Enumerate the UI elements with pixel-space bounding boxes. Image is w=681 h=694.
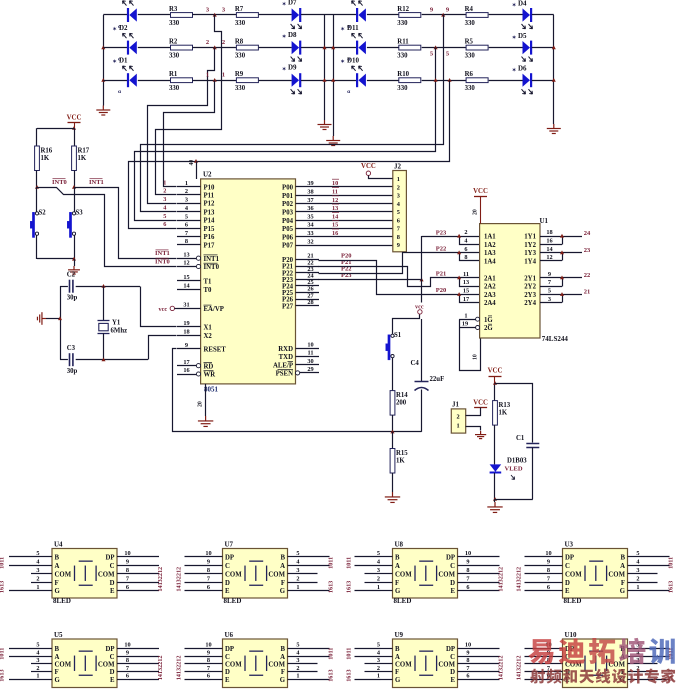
pin 4 A xyxy=(381,565,393,567)
LED D2 xyxy=(127,41,129,55)
svg-text:18: 18 xyxy=(546,229,552,236)
svg-text:C: C xyxy=(450,563,455,570)
junction (cathode bus) xyxy=(331,45,335,49)
svg-text:Y1: Y1 xyxy=(112,320,121,327)
svg-text:COM: COM xyxy=(395,662,412,669)
svg-text:P05: P05 xyxy=(282,226,294,233)
LED D11 xyxy=(356,41,358,55)
wire xyxy=(489,14,523,16)
wire xyxy=(525,565,551,567)
svg-text:F: F xyxy=(395,669,399,676)
svg-text:13: 13 xyxy=(463,279,469,286)
svg-text:B: B xyxy=(55,646,60,653)
pin 5 2Y3 xyxy=(540,294,562,296)
svg-text:R17: R17 xyxy=(78,148,90,155)
svg-text:5: 5 xyxy=(296,642,299,649)
svg-text:VCC: VCC xyxy=(473,400,488,407)
svg-text:6: 6 xyxy=(163,221,166,228)
wire xyxy=(138,47,171,49)
svg-text:1: 1 xyxy=(296,673,299,680)
svg-text:G: G xyxy=(280,588,286,595)
svg-text:R3: R3 xyxy=(169,6,178,13)
pin 10 DP xyxy=(211,556,223,558)
wire xyxy=(525,582,551,584)
svg-text:TXD: TXD xyxy=(279,354,293,361)
pin 1 G xyxy=(628,679,640,681)
svg-text:330: 330 xyxy=(169,20,180,27)
svg-text:14132212: 14132212 xyxy=(157,567,164,592)
wire xyxy=(355,556,381,558)
svg-text:12: 12 xyxy=(332,197,338,204)
svg-text:X2: X2 xyxy=(204,333,213,340)
wire xyxy=(421,390,423,432)
svg-text:1011: 1011 xyxy=(0,557,6,569)
wire xyxy=(185,556,211,558)
svg-text:E: E xyxy=(565,588,570,595)
wire xyxy=(185,582,211,584)
svg-text:330: 330 xyxy=(235,52,246,59)
pin 15 T1 xyxy=(177,280,201,282)
svg-text:D7: D7 xyxy=(288,0,297,7)
resistor R12 xyxy=(399,13,421,18)
wire xyxy=(9,679,40,681)
wire xyxy=(37,258,74,260)
svg-text:3: 3 xyxy=(296,567,299,574)
svg-text:P13: P13 xyxy=(204,209,216,216)
svg-text:U4: U4 xyxy=(54,541,63,549)
svg-text:ALE/P: ALE/P xyxy=(273,362,293,369)
svg-text:1: 1 xyxy=(377,584,380,591)
svg-text:8LED: 8LED xyxy=(53,597,71,605)
svg-text:D11: D11 xyxy=(347,24,359,32)
svg-text:A: A xyxy=(620,563,625,570)
svg-text:✶: ✶ xyxy=(512,68,516,74)
wire xyxy=(74,171,76,188)
svg-text:23: 23 xyxy=(584,247,591,254)
wire xyxy=(640,671,658,673)
svg-text:6: 6 xyxy=(397,217,400,224)
svg-text:14: 14 xyxy=(546,246,553,253)
wire output net 23 xyxy=(562,252,582,254)
svg-text:VCC: VCC xyxy=(473,188,488,195)
wire xyxy=(60,359,68,361)
svg-text:COM: COM xyxy=(98,662,115,669)
svg-text:12: 12 xyxy=(546,254,552,261)
pin 28 P27 xyxy=(296,305,320,307)
svg-text:2A3: 2A3 xyxy=(484,292,496,299)
LED xyxy=(127,8,129,22)
svg-text:R1: R1 xyxy=(169,71,178,78)
pin 10 DP xyxy=(117,648,129,650)
pin 27 P26 xyxy=(296,299,320,301)
wire xyxy=(355,648,381,650)
svg-text:38: 38 xyxy=(307,189,313,196)
wire xyxy=(36,128,38,146)
svg-text:COM: COM xyxy=(608,571,625,578)
pin 1 G xyxy=(40,590,52,592)
pin 3 COM xyxy=(40,573,52,575)
pin 6 E xyxy=(211,679,223,681)
svg-text:B: B xyxy=(55,555,60,562)
pin 5 B xyxy=(40,648,52,650)
wire xyxy=(185,663,211,665)
svg-text:DP: DP xyxy=(105,646,114,653)
svg-text:30: 30 xyxy=(307,358,313,365)
svg-text:33: 33 xyxy=(307,230,313,237)
pin 18 X2 xyxy=(177,335,201,337)
svg-text:RXD: RXD xyxy=(278,346,293,353)
pin 12 INT0 xyxy=(177,266,197,268)
pin 2 F xyxy=(628,671,640,673)
pin 7 D xyxy=(211,671,223,673)
resistor R8 xyxy=(236,45,258,50)
svg-text:1613: 1613 xyxy=(668,581,675,593)
svg-text:3: 3 xyxy=(636,567,639,574)
svg-text:U3: U3 xyxy=(565,541,574,549)
pin 1 G xyxy=(628,590,640,592)
wire xyxy=(129,656,159,658)
svg-text:20: 20 xyxy=(473,209,479,215)
ground (VLED) xyxy=(487,502,502,512)
svg-text:D: D xyxy=(110,580,115,587)
wire xyxy=(193,80,237,82)
svg-text:B: B xyxy=(395,555,400,562)
svg-text:14132212: 14132212 xyxy=(176,567,183,592)
wire xyxy=(31,663,40,665)
wire net5 xyxy=(135,48,436,221)
svg-text:COM: COM xyxy=(55,662,72,669)
svg-text:11: 11 xyxy=(332,189,338,196)
pin 9 C xyxy=(551,656,563,658)
svg-text:330: 330 xyxy=(397,52,408,59)
wire xyxy=(300,679,330,681)
svg-text:8051: 8051 xyxy=(204,386,219,394)
node 3 (row1 left) xyxy=(213,13,217,17)
wire xyxy=(640,590,670,592)
wire xyxy=(392,358,394,391)
wire xyxy=(494,499,496,502)
svg-text:✶: ✶ xyxy=(113,27,117,33)
svg-text:20: 20 xyxy=(198,401,204,407)
svg-text:7: 7 xyxy=(207,575,210,582)
wire xyxy=(129,556,159,558)
svg-text:PSEN: PSEN xyxy=(276,371,293,378)
pin 6 E xyxy=(117,590,129,592)
resistor R11 xyxy=(399,45,421,50)
svg-text:32: 32 xyxy=(307,238,313,245)
pin 2 F xyxy=(40,671,52,673)
svg-text:15: 15 xyxy=(183,274,189,281)
svg-text:1011: 1011 xyxy=(346,557,353,569)
svg-text:B: B xyxy=(395,646,400,653)
svg-text:2: 2 xyxy=(36,665,39,672)
wire P01 to J2 xyxy=(319,195,393,197)
svg-text:14132212: 14132212 xyxy=(498,656,505,681)
svg-text:3: 3 xyxy=(163,196,166,203)
wire xyxy=(365,573,381,575)
svg-text:1: 1 xyxy=(296,584,299,591)
pin 8 COM xyxy=(117,573,129,575)
svg-text:E: E xyxy=(450,677,455,684)
wire (S1 vcc feed) xyxy=(393,315,420,335)
pin 37 P02 xyxy=(296,203,320,205)
wire xyxy=(422,47,466,49)
wire xyxy=(470,671,500,673)
wire xyxy=(36,171,38,188)
pin 5 B xyxy=(288,556,300,558)
svg-text:1011: 1011 xyxy=(0,648,6,660)
wire xyxy=(185,590,211,592)
svg-text:10: 10 xyxy=(465,642,471,649)
svg-text:R9: R9 xyxy=(235,71,244,78)
svg-text:11: 11 xyxy=(308,350,314,357)
wire xyxy=(640,656,670,658)
svg-text:INT0: INT0 xyxy=(155,259,170,266)
wire xyxy=(60,286,68,288)
wire xyxy=(525,663,551,665)
svg-text:1011: 1011 xyxy=(328,557,335,569)
wire P23 riser / vcc port xyxy=(421,236,423,303)
pin 14 1Y3 xyxy=(540,252,562,254)
svg-text:1G: 1G xyxy=(484,317,493,324)
wire xyxy=(60,286,62,360)
pin 9 C xyxy=(211,656,223,658)
svg-text:7: 7 xyxy=(207,665,210,672)
pin 8 COM xyxy=(458,573,470,575)
svg-text:10: 10 xyxy=(473,354,479,360)
svg-text:330: 330 xyxy=(397,85,408,92)
pin 4 A xyxy=(40,565,52,567)
svg-text:C: C xyxy=(565,563,570,570)
pin 6 E xyxy=(458,590,470,592)
svg-text:C: C xyxy=(110,654,115,661)
wire xyxy=(494,425,496,464)
svg-text:COM: COM xyxy=(438,662,455,669)
svg-text:D10: D10 xyxy=(347,57,360,65)
svg-text:F: F xyxy=(55,669,59,676)
LED D9 xyxy=(292,74,300,87)
resistor R10 xyxy=(399,78,421,83)
svg-text:1613: 1613 xyxy=(346,581,353,593)
wire xyxy=(640,648,670,650)
svg-text:S1: S1 xyxy=(394,332,402,339)
pin 25 P24 xyxy=(296,285,320,287)
wire xyxy=(470,679,500,681)
pin 9 C xyxy=(117,565,129,567)
pin 3 COM xyxy=(628,663,640,665)
wire xyxy=(532,447,534,499)
svg-text:vcc: vcc xyxy=(159,306,168,313)
svg-text:6Mhz: 6Mhz xyxy=(111,328,128,335)
wire xyxy=(175,308,178,310)
svg-text:8: 8 xyxy=(397,234,400,241)
wire xyxy=(185,656,211,658)
svg-text:INT1: INT1 xyxy=(204,256,220,263)
svg-text:COM: COM xyxy=(565,571,582,578)
svg-text:7: 7 xyxy=(466,575,469,582)
junction (cathode bus) xyxy=(552,45,556,49)
svg-text:D: D xyxy=(565,580,570,587)
wire xyxy=(300,663,318,665)
svg-text:✶: ✶ xyxy=(282,67,286,73)
wire xyxy=(367,80,399,82)
svg-text:D1: D1 xyxy=(119,57,128,65)
wire xyxy=(103,80,128,82)
pin 24 P23 xyxy=(296,279,320,281)
wire xyxy=(367,14,399,16)
pin 19 X1 xyxy=(177,326,201,328)
svg-text:X1: X1 xyxy=(204,325,213,332)
svg-text:1Y4: 1Y4 xyxy=(524,259,536,266)
pin 2 F xyxy=(381,671,393,673)
svg-text:VCC: VCC xyxy=(67,115,82,122)
svg-text:22: 22 xyxy=(584,272,591,279)
svg-text:9: 9 xyxy=(126,559,129,566)
svg-text:E: E xyxy=(225,677,230,684)
wire xyxy=(367,47,399,49)
svg-text:6: 6 xyxy=(126,584,129,591)
pin 12 1Y4 xyxy=(540,260,562,262)
svg-text:P01: P01 xyxy=(282,193,294,200)
pin 1 G xyxy=(288,679,300,681)
svg-text:DP: DP xyxy=(446,555,455,562)
svg-text:G: G xyxy=(620,588,626,595)
svg-text:3: 3 xyxy=(548,296,551,303)
svg-text:6: 6 xyxy=(466,584,469,591)
wire xyxy=(365,582,381,584)
wire xyxy=(300,648,330,650)
svg-text:1: 1 xyxy=(222,72,225,79)
svg-text:34: 34 xyxy=(307,222,314,229)
ground xyxy=(547,124,561,134)
pin 7 2Y2 xyxy=(540,286,562,288)
svg-text:A: A xyxy=(395,654,400,661)
svg-text:F: F xyxy=(395,580,399,587)
svg-text:P20: P20 xyxy=(436,287,446,294)
svg-text:24: 24 xyxy=(584,230,591,237)
wire output net 22 xyxy=(562,277,582,279)
resistor R14 xyxy=(390,391,395,416)
pin 4 P13 xyxy=(177,211,201,213)
svg-text:A: A xyxy=(395,563,400,570)
wire (D10-D12 cathode bus) xyxy=(333,15,335,136)
svg-text:74LS244: 74LS244 xyxy=(542,335,569,343)
wire xyxy=(369,176,393,179)
wire xyxy=(74,128,76,146)
svg-text:6: 6 xyxy=(466,673,469,680)
pin 9 C xyxy=(458,656,470,658)
pin 3 COM xyxy=(40,663,52,665)
svg-text:2: 2 xyxy=(457,413,460,420)
pin 1 G xyxy=(381,590,393,592)
wire xyxy=(525,648,551,650)
svg-text:1K: 1K xyxy=(78,155,87,162)
node INT0 xyxy=(35,185,39,189)
svg-text:12: 12 xyxy=(183,260,189,267)
svg-text:5: 5 xyxy=(296,550,299,557)
svg-text:C: C xyxy=(110,563,115,570)
svg-text:1011: 1011 xyxy=(346,648,353,660)
svg-text:5: 5 xyxy=(36,642,39,649)
svg-text:1613: 1613 xyxy=(346,669,353,681)
svg-text:2G: 2G xyxy=(484,325,493,332)
svg-text:35: 35 xyxy=(307,213,313,220)
ground (left LED column) xyxy=(96,106,110,116)
wire P04 to J2 xyxy=(319,220,393,222)
wire xyxy=(31,671,40,673)
svg-text:30p: 30p xyxy=(67,368,78,375)
LED D10 xyxy=(356,73,358,87)
svg-text:D8: D8 xyxy=(288,31,297,39)
svg-text:S2: S2 xyxy=(39,210,47,217)
pin 36 P03 xyxy=(296,211,320,213)
pin 4 A xyxy=(40,656,52,658)
pin 4 A xyxy=(288,565,300,567)
pin 32 P07 xyxy=(296,245,320,247)
svg-text:P27: P27 xyxy=(282,303,294,310)
pin 5 B xyxy=(288,648,300,650)
svg-text:A: A xyxy=(280,563,285,570)
svg-text:B: B xyxy=(280,646,285,653)
LED D6 xyxy=(523,74,531,87)
svg-text:P11: P11 xyxy=(204,193,215,200)
svg-text:19: 19 xyxy=(462,321,468,328)
svg-text:37: 37 xyxy=(307,197,313,204)
wire xyxy=(300,590,330,592)
pin 4 A xyxy=(628,656,640,658)
pin 1 P10 xyxy=(177,186,201,188)
wire xyxy=(31,582,40,584)
pin 4 A xyxy=(288,656,300,658)
wire xyxy=(300,671,318,673)
svg-text:F: F xyxy=(281,580,285,587)
svg-text:COM: COM xyxy=(268,571,285,578)
wire P07 to J2 xyxy=(319,245,393,247)
svg-text:9: 9 xyxy=(466,559,469,566)
wire (1A2 tie) xyxy=(460,237,480,245)
svg-text:D: D xyxy=(225,669,230,676)
resistor R2 xyxy=(171,45,193,50)
wire xyxy=(470,590,500,592)
svg-text:330: 330 xyxy=(235,20,246,27)
svg-text:1011: 1011 xyxy=(328,648,335,660)
pin 10 DP xyxy=(551,556,563,558)
svg-text:1: 1 xyxy=(457,422,460,429)
svg-text:A: A xyxy=(280,654,285,661)
capacitor C4 xyxy=(421,319,423,382)
pin 1 G xyxy=(288,590,300,592)
svg-text:8: 8 xyxy=(464,254,467,261)
wire xyxy=(185,565,211,567)
wire xyxy=(138,14,171,16)
wire xyxy=(525,679,551,681)
svg-text:9: 9 xyxy=(207,649,210,656)
svg-text:3: 3 xyxy=(185,196,188,203)
wire xyxy=(489,80,523,82)
svg-text:2: 2 xyxy=(163,188,166,195)
wire xyxy=(525,573,551,575)
wire xyxy=(300,582,318,584)
svg-text:P04: P04 xyxy=(282,218,294,225)
resistor R1 xyxy=(171,78,193,83)
svg-text:U8: U8 xyxy=(395,541,404,549)
svg-text:RD: RD xyxy=(204,363,214,370)
svg-text:P15: P15 xyxy=(204,226,216,233)
pin 33 P06 xyxy=(296,236,320,238)
svg-text:330: 330 xyxy=(169,52,180,59)
pin 7 D xyxy=(117,671,129,673)
wire P03 to J2 xyxy=(319,211,393,213)
